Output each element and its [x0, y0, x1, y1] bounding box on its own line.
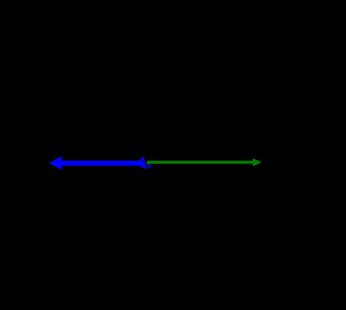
node A: blue left arrowhead	[49, 156, 62, 169]
node B: blue upper barb	[140, 157, 143, 161]
node D: green right arrowhead	[253, 158, 262, 166]
node B: blue right-end mass	[140, 160, 146, 166]
node B: blue detached sliver	[148, 165, 150, 168]
wire: green arrow shaft	[147, 161, 254, 164]
node B: blue lower barb	[141, 165, 146, 169]
node C: green start lower notch	[146, 164, 148, 165]
wire: blue double-headed arrow shaft	[56, 161, 140, 166]
